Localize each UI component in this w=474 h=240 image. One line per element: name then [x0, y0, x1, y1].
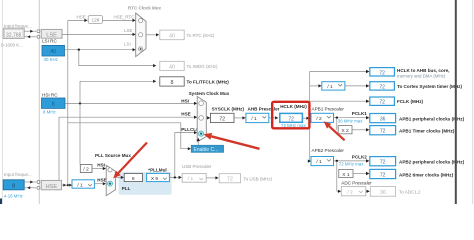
svg-text:72 MHz max: 72 MHz max [339, 161, 364, 166]
svg-text:To FLITFCLK (MHz): To FLITFCLK (MHz) [187, 80, 230, 85]
To FLITFCLK box 8 [160, 77, 184, 86]
svg-text:72: 72 [227, 177, 233, 183]
red highlight rectangle [272, 102, 309, 129]
wire PCLK2 down to X1 [336, 161, 338, 191]
red arrow to sysmux PLLCLK [204, 133, 260, 150]
APB1 timer box 72 [370, 126, 396, 135]
svg-text:HSE: HSE [46, 184, 58, 190]
wire LSI down to IWDG row [79, 50, 154, 66]
PLL source mux shape [106, 165, 115, 195]
svg-text:4-16 MHz: 4-16 MHz [4, 193, 23, 198]
PLL mux radio HSI [108, 168, 112, 172]
SYSCLK box 72 [210, 113, 234, 122]
svg-text:FCLK (MHz): FCLK (MHz) [397, 99, 423, 104]
wire LSI to RTC mux [65, 49, 134, 51]
svg-text:128: 128 [91, 18, 99, 23]
svg-text:/ 1: / 1 [316, 159, 322, 165]
wire /1 to PLL mux [94, 183, 103, 185]
LSE terminal circles [37, 30, 40, 33]
HCLK distribution vertical wire [309, 72, 311, 162]
svg-text:72: 72 [288, 116, 294, 122]
svg-text:72: 72 [379, 100, 385, 106]
junction HCLK distribution [309, 117, 311, 119]
svg-text:PCLK1: PCLK1 [352, 111, 368, 116]
svg-text:PCLK2: PCLK2 [352, 154, 368, 159]
svg-text:LSI: LSI [124, 41, 131, 46]
LSE OSC arrowheads [30, 30, 33, 33]
svg-text:Enable C...: Enable C... [194, 147, 219, 153]
bottom-left corner mark [0, 199, 2, 205]
wire HSE up to RTC divider [67, 20, 69, 185]
svg-text:/ 1: / 1 [327, 84, 333, 90]
svg-text:APB1 peripheral clocks (MHz): APB1 peripheral clocks (MHz) [399, 117, 465, 122]
AHB bus box 72 [370, 68, 395, 77]
svg-text:36 MHz max: 36 MHz max [338, 118, 363, 123]
wire X2 to timer box [352, 129, 366, 131]
HSE prediv combobox /1 [72, 180, 94, 189]
svg-text:32.768: 32.768 [6, 32, 22, 38]
svg-text:APB2 Prescaler: APB2 Prescaler [312, 148, 345, 153]
svg-text:40 KHz: 40 KHz [44, 57, 58, 62]
wire HSI to system clock mux [65, 102, 195, 104]
svg-text:Input freque...: Input freque... [4, 24, 32, 29]
svg-text:System Clock Mux: System Clock Mux [189, 91, 230, 96]
wire HSI up to FLITFCLK [80, 81, 154, 103]
svg-text:36: 36 [380, 190, 386, 196]
svg-text:PLL: PLL [122, 186, 131, 191]
wire into ADC prescaler [337, 190, 339, 192]
svg-text:72: 72 [379, 84, 385, 90]
svg-text:HCLK to AHB bus, core,: HCLK to AHB bus, core, [397, 68, 449, 73]
PLL input box 8 [124, 173, 142, 181]
svg-text:X 1: X 1 [342, 172, 350, 178]
svg-text:72: 72 [380, 129, 386, 135]
LSE input frequency box 32.768 [3, 28, 24, 38]
svg-text:40: 40 [169, 64, 175, 70]
right dark separator line [455, 0, 457, 204]
wire RTC mux output [146, 34, 156, 36]
APB2 prescaler combobox /1 [311, 157, 334, 166]
svg-text:8 MHz: 8 MHz [43, 110, 56, 115]
svg-text:X 2: X 2 [341, 128, 349, 134]
svg-text:72: 72 [380, 173, 386, 179]
svg-text:40: 40 [169, 33, 175, 39]
enable CSS button [191, 145, 223, 153]
junction PCLK1 [336, 117, 338, 119]
wire into APB2 prescaler [308, 160, 311, 163]
PLLMul combobox X9 [147, 173, 170, 181]
wire ADC prescaler to box [366, 190, 367, 192]
ADC box 36 disabled [370, 187, 395, 197]
svg-text:SYSCLK (MHz): SYSCLK (MHz) [212, 107, 245, 112]
svg-text:HSI RC: HSI RC [42, 93, 58, 98]
svg-text:/ 1: / 1 [188, 176, 194, 182]
svg-text:HSE_RTC: HSE_RTC [114, 15, 136, 20]
wire SYSCLK to AHB prescaler [234, 117, 243, 119]
wire CSS branch to enable button [68, 123, 189, 149]
RTC mux radio LSE [139, 33, 143, 37]
svg-text:8: 8 [12, 183, 15, 189]
svg-text:/ 2: / 2 [347, 189, 353, 195]
LSI RC box 40 [42, 45, 65, 56]
HSE box [41, 180, 61, 190]
red arrow to APB1 prescaler [324, 121, 346, 141]
sysmux radio PLLCLK selected [199, 131, 204, 136]
wire PLL mux output [115, 176, 121, 178]
svg-text:72: 72 [379, 70, 385, 76]
svg-text:36: 36 [380, 117, 386, 123]
svg-text:8: 8 [132, 176, 135, 182]
wire /2 to PLL mux [92, 168, 103, 170]
svg-text:RTC Clock Mux: RTC Clock Mux [128, 5, 162, 10]
APB2 timer box 72 [370, 169, 396, 178]
wire AHB to HCLK box [269, 117, 276, 119]
svg-text:HSI: HSI [181, 98, 189, 103]
svg-text:To Cortex System timer (MHz): To Cortex System timer (MHz) [397, 84, 462, 89]
svg-text:/ 1: / 1 [77, 182, 83, 188]
HCLK box 72 highlighted [280, 113, 303, 122]
svg-text:72: 72 [380, 160, 386, 166]
wire HSI down to PLL /2 [79, 103, 81, 164]
svg-text:To USB (MHz): To USB (MHz) [243, 176, 272, 181]
svg-text:PLL Source Mux: PLL Source Mux [95, 153, 131, 158]
junction PCLK2 [336, 160, 338, 162]
right faint edge line [472, 0, 473, 204]
HSE input frequency box 8 [3, 180, 24, 190]
wire APB1 to 36 box [334, 117, 367, 119]
PLL block background [119, 172, 172, 195]
APB2 peripheral box 72 [370, 157, 396, 166]
APB1 prescaler combobox /2 [311, 113, 334, 122]
svg-text:HSE: HSE [97, 178, 106, 183]
svg-text:Input freque...: Input freque... [4, 172, 32, 177]
To IWDG box 40 [160, 61, 184, 70]
svg-text:HSE: HSE [77, 15, 86, 20]
RTC mux shape [136, 13, 146, 57]
junction PLLCLK [174, 176, 176, 178]
wire LSE to RTC mux [62, 33, 134, 35]
wire PLLCLK up to system clock mux [175, 133, 195, 178]
APB1 peripheral box 36 [370, 114, 396, 123]
wire to cortex prescaler [310, 85, 319, 87]
wire up-arrow into mux bottom [197, 140, 199, 145]
PLL mux radio HSE selected [108, 181, 113, 186]
svg-text:APB2 peripheral clocks (MHz): APB2 peripheral clocks (MHz) [399, 160, 465, 165]
system clock mux shape [197, 97, 206, 142]
HSI RC box 8 [42, 98, 66, 108]
To RTC box 40 [160, 30, 184, 40]
RTC mux radio HSE_RTC [139, 19, 143, 23]
AHB prescaler combobox /1 [246, 113, 269, 122]
wire to AHB bus box [310, 71, 366, 73]
wire USB prescaler to USB box [206, 177, 216, 179]
wire HSE out [62, 184, 66, 186]
wire APB2 to 72 box [334, 160, 367, 162]
svg-text:*PLLMul: *PLLMul [148, 167, 166, 172]
sysmux radio HSI [199, 101, 204, 106]
wire HSE up to system clock mux [59, 117, 195, 180]
X2 multiplier box [338, 126, 352, 134]
svg-text:/ 1: / 1 [251, 116, 257, 122]
LSE box [41, 29, 62, 38]
svg-text:LSE: LSE [124, 28, 133, 33]
wire sysmux to SYSCLK box [206, 117, 207, 119]
wire PLL output [169, 176, 179, 178]
svg-text:40: 40 [50, 49, 56, 55]
svg-text:/ 2: / 2 [316, 116, 322, 122]
divider 128 box [88, 15, 102, 23]
ADC prescaler combobox /2 disabled [341, 187, 366, 196]
svg-text:HSE: HSE [181, 111, 190, 116]
cortex timer box 72 [370, 82, 395, 91]
svg-text:APB1 Timer clocks (MHz): APB1 Timer clocks (MHz) [399, 129, 455, 134]
wire to FCLK box [310, 100, 366, 102]
wire cortex prescaler to box [345, 85, 366, 87]
svg-text:To IWDG (KHz): To IWDG (KHz) [187, 64, 219, 69]
svg-text:USB Prescaler: USB Prescaler [182, 164, 212, 169]
junction HSI [79, 102, 81, 104]
junction LSI branch [78, 49, 80, 51]
wire 128 to mux [103, 19, 134, 21]
sysmux radio HSE [199, 116, 204, 121]
panel edge line [39, 0, 40, 204]
cortex prescaler combobox /1 [322, 82, 345, 91]
RTC mux radio LSI selected [139, 47, 143, 51]
divider /2 HSI box [80, 165, 92, 173]
svg-text:memory and DMA (MHz): memory and DMA (MHz) [397, 74, 446, 79]
LSE OSC_IN wire [24, 31, 36, 37]
junction HSE [67, 184, 69, 186]
svg-text:8: 8 [171, 80, 174, 86]
HSE OSC arrowheads [30, 181, 33, 184]
USB prescaler combobox /1 disabled [182, 174, 206, 183]
svg-text:To RTC (KHz): To RTC (KHz) [187, 33, 215, 38]
X1 multiplier box [339, 169, 353, 177]
wire HCLK out [302, 117, 307, 119]
svg-text:X 9: X 9 [151, 176, 159, 182]
HSE terminal circles [37, 181, 40, 184]
svg-text:8: 8 [52, 102, 55, 108]
svg-text:ADC Prescaler: ADC Prescaler [341, 181, 372, 186]
svg-text:72: 72 [219, 116, 225, 122]
svg-text:LSI RC: LSI RC [42, 38, 57, 43]
HSE OSC wires [24, 182, 36, 188]
svg-text:APB2 timer clocks (MHz): APB2 timer clocks (MHz) [399, 173, 454, 178]
svg-text:/ 2: / 2 [83, 167, 89, 173]
svg-text:HCLK (MHz): HCLK (MHz) [280, 104, 307, 109]
svg-text:0-1000 K...: 0-1000 K... [1, 43, 23, 48]
svg-text:HSI: HSI [97, 162, 105, 167]
svg-text:AHB Prescaler: AHB Prescaler [248, 107, 280, 112]
svg-text:APB1 Prescaler: APB1 Prescaler [312, 107, 345, 112]
wire HSE to /128 divider [68, 19, 85, 21]
red arrow to PLL mux HSE [113, 142, 148, 179]
window left edge line [2, 0, 3, 204]
wire HSE to /1 prediv [68, 184, 71, 186]
wire PCLK1 down to X2 [336, 118, 338, 130]
svg-text:To ADC1,2: To ADC1,2 [399, 190, 421, 195]
FCLK box 72 [370, 97, 395, 106]
wire X1 to timer box [353, 173, 366, 175]
To USB box 72 disabled [219, 174, 240, 183]
